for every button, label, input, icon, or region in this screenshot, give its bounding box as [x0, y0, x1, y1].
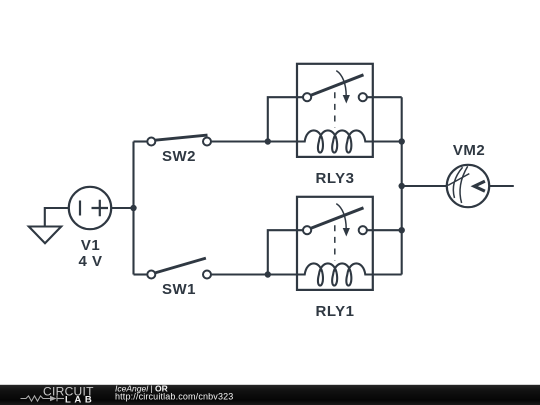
wire left vertical bus	[132, 142, 134, 275]
wire RLY1 switch right pin to bus	[367, 229, 402, 231]
relay RLY1 actuation arrow	[336, 204, 350, 237]
svg-text:SW2: SW2	[162, 148, 196, 165]
svg-text:V1: V1	[81, 237, 100, 254]
relay RLY3 dashed link	[334, 92, 336, 127]
voltage source V1	[69, 187, 111, 229]
svg-text:4 V: 4 V	[78, 253, 102, 270]
svg-text:VM2: VM2	[453, 142, 485, 159]
CircuitLab logo resistor-diode squiggle	[21, 396, 65, 402]
svg-text:http://circuitlab.com/cnbv323: http://circuitlab.com/cnbv323	[115, 391, 233, 401]
relay RLY3 actuation arrow	[336, 71, 350, 104]
switch SW1	[134, 258, 268, 278]
svg-text:LAB: LAB	[65, 395, 95, 405]
relay RLY1 box	[297, 197, 373, 290]
wire RLY1 coil right to bus	[373, 273, 402, 275]
wire junction to RLY3 coil left	[268, 140, 305, 142]
relay RLY1 coil	[297, 263, 373, 285]
ground	[29, 227, 61, 244]
wire VM2 left lead	[402, 185, 447, 187]
relay RLY3 coil	[297, 130, 373, 152]
footer bar	[0, 385, 540, 405]
node junction RLY1 switch-bus	[399, 227, 405, 233]
switch SW2	[134, 135, 268, 145]
node junction RLY3 coil-bus	[399, 138, 405, 144]
wire RLY3 switch right pin to bus	[367, 96, 402, 98]
relay RLY3 box	[297, 64, 373, 157]
svg-text:RLY1: RLY1	[316, 303, 355, 320]
wire VM2 right stub	[489, 185, 514, 187]
wire junction up to RLY3 switch pin	[268, 97, 303, 141]
voltmeter VM2	[447, 165, 489, 207]
svg-text:SW1: SW1	[162, 281, 196, 298]
relay RLY1 dashed link	[334, 225, 336, 260]
svg-text:RLY3: RLY3	[316, 170, 355, 187]
node junction VM2-bus	[399, 183, 405, 189]
wire V1 right lead	[111, 207, 133, 209]
wire V1 left lead to ground	[45, 208, 69, 227]
node junction V1-bus	[130, 205, 136, 211]
node junction SW2 to RLY3	[265, 138, 271, 144]
wire junction up to RLY1 switch pin	[268, 230, 303, 274]
wire RLY3 coil right to bus	[373, 140, 402, 142]
relay RLY1 switch	[303, 208, 367, 234]
wire junction to RLY1 coil left	[268, 273, 305, 275]
node junction SW1 to RLY1	[265, 271, 271, 277]
wire right vertical bus	[401, 97, 403, 274]
relay RLY3 switch	[303, 75, 367, 101]
